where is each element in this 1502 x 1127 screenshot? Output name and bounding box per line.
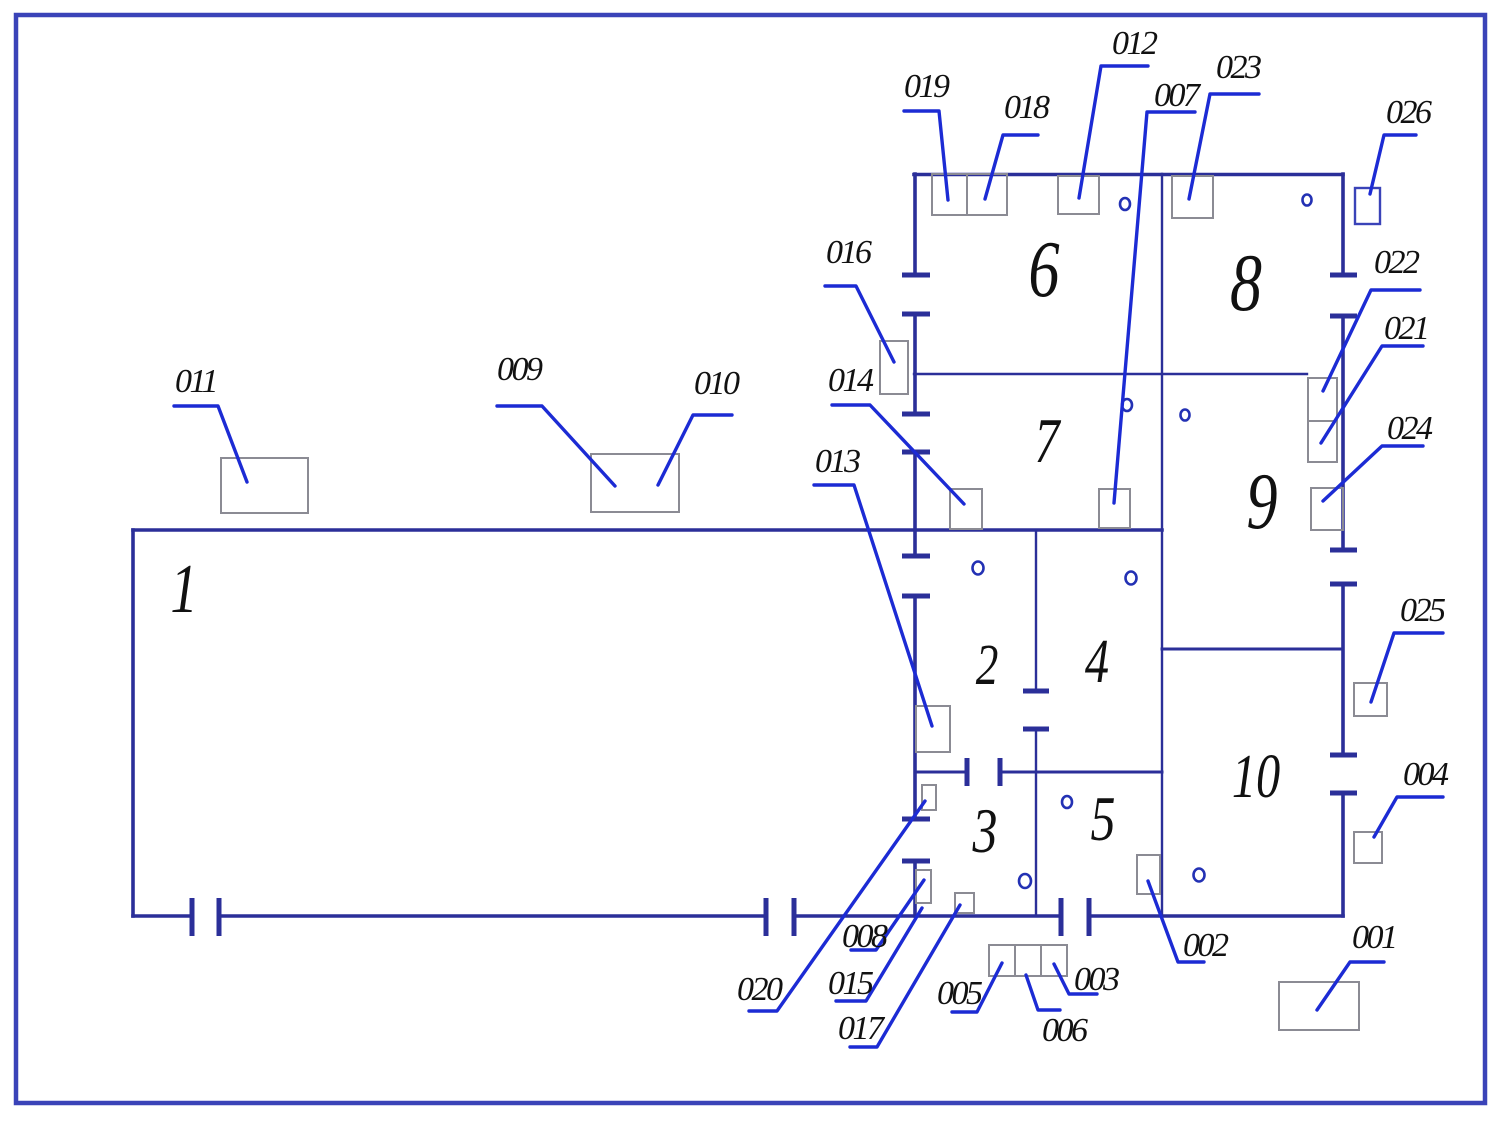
leader 012 [1079,66,1148,198]
leader 009 [497,406,615,486]
wall left of room 1 x=133 [131,530,135,916]
wall x=1162 between 6,7,4,5 and 8,9,10 [1161,174,1163,916]
svg-text:002: 002 [1183,927,1229,964]
svg-text:010: 010 [694,365,740,402]
box 021 [1308,421,1337,462]
box 004 [1354,832,1382,863]
svg-text:011: 011 [175,363,216,400]
box 017 [955,893,974,913]
ticks on wall x=1343 [1330,275,1357,793]
box 007 [1099,489,1130,528]
circle room4 [1126,572,1137,585]
svg-text:008: 008 [842,918,888,955]
svg-text:022: 022 [1374,244,1420,281]
box 015 [916,870,931,903]
box 024 [1311,488,1343,530]
svg-text:001: 001 [1352,919,1396,956]
svg-text:10: 10 [1232,742,1281,811]
box 016 [880,341,908,394]
box 011 [221,458,308,513]
svg-text:014: 014 [828,362,874,399]
leader 007 [1114,112,1195,503]
svg-text:2: 2 [976,634,999,698]
svg-text:025: 025 [1400,592,1445,629]
box 023 [1172,176,1213,218]
box 019 018 double [932,174,1007,215]
wall divider 2/4 and 3/5 x=1036 [1035,530,1037,916]
svg-text:013: 013 [815,443,860,480]
leader 020 [749,801,925,1011]
circle room5 [1062,796,1072,808]
leader 010 [658,415,732,485]
box 013 [916,706,950,752]
svg-text:6: 6 [1028,225,1059,314]
svg-text:007: 007 [1154,77,1202,114]
leader 008 [851,880,924,950]
ticks on wall x=1036 [1023,691,1049,729]
svg-text:019: 019 [904,68,950,105]
box 005/006/003 triple [989,945,1067,976]
leader 018 [985,135,1038,199]
leader 004 [1374,797,1443,837]
svg-text:8: 8 [1230,236,1262,327]
circle room10 [1194,869,1205,882]
box 014 [950,489,982,529]
svg-text:017: 017 [838,1010,886,1047]
leader 017 [850,905,960,1047]
leader 023 [1189,94,1259,199]
svg-text:015: 015 [828,965,873,1002]
svg-text:3: 3 [972,796,998,866]
leader 022 [1323,290,1420,391]
leader 003 [1054,964,1097,994]
wall bottom y=916 with door gaps [133,914,1343,918]
leader 001 [1317,962,1384,1010]
circle room9 [1181,410,1190,421]
svg-text:024: 024 [1387,410,1433,447]
circle room6 [1120,198,1130,210]
box 009/010 [591,454,679,512]
svg-text:7: 7 [1035,406,1062,476]
svg-text:1: 1 [170,550,197,628]
leader lines [174,66,1443,1047]
svg-text:004: 004 [1403,756,1449,793]
leader 005 [952,963,1002,1012]
leader 021 [1321,346,1423,443]
svg-text:9: 9 [1246,457,1277,546]
wall divider 9/10 y=649 [1162,648,1343,651]
leader 024 [1323,446,1423,501]
walls [133,174,1343,916]
leader 026 [1370,135,1416,194]
leader 011 [174,406,247,482]
circle room8 [1303,195,1312,206]
svg-text:009: 009 [497,351,543,388]
leader 016 [825,286,894,362]
small circles (door knobs) [973,195,1312,889]
wall top of rooms 1,2,4 y=530 [133,528,1162,532]
wall x=915 segments with door openings [913,174,917,916]
svg-text:018: 018 [1004,89,1050,126]
room numbers [170,225,1280,867]
svg-text:003: 003 [1074,961,1119,998]
label texts [175,25,1449,1049]
box 001 [1279,982,1359,1030]
svg-text:021: 021 [1384,310,1428,347]
svg-text:020: 020 [737,971,783,1008]
circle room7 [1122,399,1132,411]
wall divider 2/3 4/5 y=772 with door gap [915,771,1162,774]
leader 019 [904,111,948,200]
leader 025 [1371,633,1443,702]
svg-text:023: 023 [1216,49,1261,86]
gray fixture boxes [221,174,1387,1030]
svg-text:012: 012 [1112,25,1158,62]
leader 013 [814,485,932,726]
svg-text:026: 026 [1386,94,1432,131]
circle room2 [973,562,984,575]
box 025 [1354,683,1387,716]
leader 006 [1026,975,1060,1010]
leader 014 [832,405,964,504]
leader 002 [1148,881,1204,962]
ticks on wall x=915 [902,275,930,861]
box 022 [1308,378,1337,421]
circle room3 [1019,874,1031,888]
door jamb tick marks [192,275,1357,936]
box 026 [1355,188,1380,224]
svg-text:016: 016 [826,234,872,271]
svg-text:4: 4 [1085,627,1109,696]
box 008 [922,785,936,810]
wall top of rooms 6,8 y=174 [914,173,1343,177]
box 012 [1058,176,1099,214]
box 002 [1137,855,1160,894]
wall right x=1343 segments [1341,174,1345,916]
svg-text:5: 5 [1091,784,1116,854]
ticks on door gap of y=772 wall [967,758,1000,786]
wall divider 6/7 and 8/9 y=374 [914,373,1307,375]
svg-text:006: 006 [1042,1012,1088,1049]
ticks on bottom wall y=916 [192,898,1089,936]
svg-text:005: 005 [937,975,982,1012]
leader 015 [836,908,922,1001]
